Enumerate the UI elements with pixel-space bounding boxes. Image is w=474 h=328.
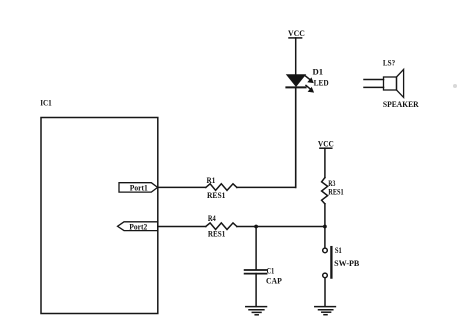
svg-text:SW-PB: SW-PB — [334, 259, 360, 268]
svg-text:VCC: VCC — [288, 29, 305, 38]
capacitor C1 — [245, 266, 282, 285]
wire Port1 to R1 — [158, 186, 206, 188]
svg-text:D1: D1 — [313, 68, 324, 77]
junction C1 node — [254, 225, 258, 229]
junction R3 node — [323, 225, 327, 229]
resistor R4 — [206, 214, 237, 238]
wire node to C1 — [255, 227, 257, 270]
ground (C1) — [246, 307, 267, 315]
svg-text:RES1: RES1 — [207, 191, 225, 200]
wire R4 to R3 node — [237, 226, 325, 228]
LED D1 — [286, 68, 328, 88]
port Port1 — [119, 183, 158, 193]
svg-text:VCC: VCC — [318, 140, 334, 149]
svg-text:Port1: Port1 — [130, 183, 148, 192]
ground (S1) — [315, 307, 336, 315]
resistor R1 — [206, 176, 237, 200]
svg-text:R4: R4 — [208, 214, 217, 223]
switch S1 — [323, 246, 360, 278]
wire LED cathode down to R1 node — [295, 87, 297, 187]
LED emission arrow 1 — [305, 76, 314, 83]
svg-text:IC1: IC1 — [40, 99, 52, 108]
port Port2 — [118, 222, 158, 232]
svg-text:Port2: Port2 — [129, 223, 147, 232]
power VCC (top) — [288, 29, 305, 38]
svg-text:S1: S1 — [335, 246, 342, 255]
svg-text:SPEAKER: SPEAKER — [383, 100, 420, 109]
wire C1 to ground — [255, 274, 257, 307]
speaker LS? — [364, 59, 419, 110]
svg-text:LS?: LS? — [383, 59, 395, 68]
resistor R3 — [322, 178, 344, 204]
svg-text:C1: C1 — [267, 266, 275, 275]
svg-text:CAP: CAP — [266, 277, 282, 286]
power VCC (right) — [318, 140, 334, 149]
wire Port2 to R4 — [158, 226, 206, 228]
IC U1 body IC1 — [41, 118, 158, 314]
wire VCC to LED anode — [295, 38, 297, 75]
svg-text:R3: R3 — [328, 179, 335, 188]
wire R1 to LED node — [237, 186, 296, 188]
svg-text:LED: LED — [314, 78, 329, 87]
wire VCC to R3 — [324, 148, 326, 177]
svg-text:RES1: RES1 — [328, 188, 343, 197]
wire R3 to node — [324, 204, 326, 248]
wire S1 to ground — [324, 278, 326, 307]
svg-text:RES1: RES1 — [208, 230, 225, 239]
svg-text:R1: R1 — [207, 176, 216, 185]
LED emission arrow 2 — [306, 85, 314, 92]
